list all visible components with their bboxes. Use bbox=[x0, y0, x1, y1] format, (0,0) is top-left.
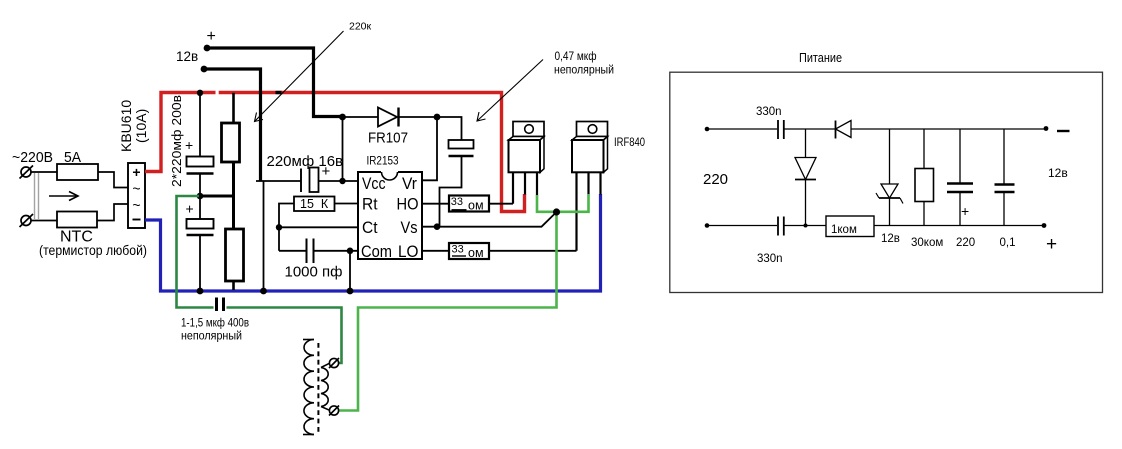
node supply top right bbox=[1044, 126, 1049, 131]
transformer T1 secondary winding bbox=[304, 340, 314, 435]
wire zener branch top bbox=[889, 129, 891, 184]
svg-text:33: 33 bbox=[452, 244, 464, 256]
node 12v minus bbox=[201, 66, 208, 73]
svg-text:Vr: Vr bbox=[402, 175, 417, 193]
svg-text:KBU610: KBU610 bbox=[118, 100, 134, 152]
svg-text:+: + bbox=[186, 201, 194, 217]
svg-text:12в: 12в bbox=[881, 233, 900, 245]
wire 12v minus to bus bbox=[263, 181, 265, 291]
wire Com to bus bbox=[349, 251, 351, 291]
node capacitor midpoint bbox=[197, 193, 204, 200]
wire R1 to midpoint bbox=[232, 162, 235, 196]
svg-text:неполярный: неполярный bbox=[554, 65, 614, 77]
capacitor C10 330n bbox=[778, 217, 784, 236]
wire secondary top stub bbox=[303, 339, 314, 341]
terminal input L bbox=[20, 166, 34, 179]
wire bottom rail right bbox=[874, 225, 1044, 227]
svg-text:ом: ом bbox=[468, 246, 484, 260]
terminal primary top bbox=[329, 358, 339, 368]
svg-text:220: 220 bbox=[703, 171, 728, 188]
pin Q2 source bbox=[599, 172, 601, 194]
wire to C1 bbox=[199, 93, 201, 157]
wire Q2 drain green bbox=[557, 194, 589, 212]
svg-text:330n: 330n bbox=[757, 253, 783, 265]
svg-text:IR2153: IR2153 bbox=[367, 156, 399, 168]
capacitor C2 220мф 200в bbox=[186, 201, 214, 236]
wire anode to FR107 bbox=[343, 116, 379, 118]
svg-text:~: ~ bbox=[132, 197, 140, 213]
svg-text:1ком: 1ком bbox=[831, 224, 857, 236]
wire top rail mid bbox=[784, 128, 836, 130]
wire top rail left bbox=[707, 128, 777, 130]
wire red rail to R1 bbox=[232, 93, 235, 123]
svg-text:(термистор любой): (термистор любой) bbox=[39, 242, 147, 258]
op-amp U1 IR2153 bbox=[358, 170, 422, 260]
label minus bbox=[1057, 130, 1070, 132]
thermistor NTC bbox=[57, 212, 97, 228]
node bootstrap bbox=[434, 114, 441, 121]
node half-bridge midpoint bbox=[553, 208, 560, 215]
svg-text:+: + bbox=[185, 137, 193, 153]
pin Q2 gate bbox=[575, 172, 577, 251]
svg-text:+: + bbox=[207, 28, 216, 45]
svg-text:30ком: 30ком bbox=[911, 237, 943, 249]
svg-text:+: + bbox=[132, 164, 140, 180]
transformer T1 primary winding bbox=[321, 368, 328, 407]
wire 12v minus down bbox=[204, 69, 261, 181]
wire NTC to KBU ~ pin bbox=[97, 204, 128, 221]
resistor R5 33ом bbox=[449, 243, 489, 260]
wire half-bridge node to transformer green bbox=[339, 212, 557, 411]
mains cord (grey pair) bbox=[35, 173, 39, 220]
pin − bbox=[133, 219, 141, 221]
diode D2 bbox=[836, 121, 852, 139]
capacitor C3 220мф 16в bbox=[301, 163, 331, 192]
wire Ct pin bbox=[279, 226, 358, 228]
transformer core bbox=[317, 343, 319, 433]
node FR107 anode bbox=[339, 114, 346, 121]
resistor R7 1ком bbox=[826, 216, 874, 237]
capacitor C7 330n bbox=[778, 120, 784, 139]
transistor Q2 IRF840 bbox=[572, 122, 608, 173]
node supply bottom left bbox=[705, 223, 710, 228]
node D1 on bottom rail bbox=[804, 224, 808, 228]
wire Q1 source green bbox=[537, 195, 557, 212]
svg-text:33: 33 bbox=[451, 196, 463, 208]
svg-text:0,47 мкф: 0,47 мкф bbox=[555, 51, 597, 63]
resistor R2 220к bbox=[226, 229, 244, 281]
wire HO pin bbox=[422, 203, 449, 205]
wire fuse to KBU ~ pin bbox=[98, 172, 128, 188]
svg-text:1-1,5 мкф 400в: 1-1,5 мкф 400в bbox=[181, 316, 249, 330]
wire midpoint to R2 bbox=[232, 196, 235, 229]
zener diode VD1 12в bbox=[876, 184, 903, 204]
svg-text:ом: ом bbox=[468, 199, 484, 213]
node C2 on bus bbox=[197, 288, 204, 295]
svg-text:~: ~ bbox=[132, 181, 140, 197]
svg-text:FR107: FR107 bbox=[368, 130, 408, 147]
wire bottom rail left bbox=[707, 225, 777, 227]
resistor R3 15К bbox=[294, 197, 335, 212]
wire terminal N to NTC bbox=[31, 220, 57, 222]
pin Q1 source bbox=[536, 172, 538, 196]
node Com on bus bbox=[347, 288, 354, 295]
wire C9 branch bottom bbox=[1003, 192, 1005, 226]
wire Vr pin to bootstrap node bbox=[422, 117, 437, 180]
resistor R4 33ом bbox=[449, 196, 489, 213]
svg-text:330n: 330n bbox=[756, 106, 782, 118]
wire C9 branch top bbox=[1003, 129, 1005, 184]
wire C3 to Vcc bbox=[319, 180, 359, 182]
pin Q2 drain bbox=[587, 172, 589, 194]
capacitor C8 220 bbox=[947, 184, 973, 193]
svg-text:2*220мф 200в: 2*220мф 200в bbox=[169, 95, 184, 187]
wire red rail white break bbox=[216, 90, 219, 95]
wire link to cap midpoint bbox=[200, 195, 234, 198]
diode FR107 bbox=[378, 108, 399, 127]
capacitor C4 0,47мкф bbox=[437, 117, 474, 227]
wire D1 branch top bbox=[805, 129, 807, 158]
svg-text:LO: LO bbox=[398, 243, 419, 261]
bridge rectifier KBU610 bbox=[128, 163, 145, 228]
svg-text:Питание: Питание bbox=[799, 51, 842, 65]
node Com bbox=[347, 248, 354, 255]
svg-text:+: + bbox=[961, 203, 969, 219]
fuse F1 5A bbox=[57, 164, 98, 180]
wire R4 to Q1 gate bbox=[490, 203, 514, 205]
wire zener branch bottom bbox=[889, 198, 891, 226]
svg-text:220к: 220к bbox=[349, 21, 372, 33]
pin Q1 gate bbox=[512, 172, 514, 203]
wire C2 to blue bus bbox=[199, 235, 201, 291]
node supply bottom right bbox=[1042, 223, 1047, 228]
wire Rt pin bbox=[335, 203, 359, 205]
terminal input N bbox=[20, 214, 34, 227]
svg-text:Vs: Vs bbox=[401, 219, 418, 237]
node Vs bootstrap return bbox=[434, 223, 441, 230]
wire C8 branch top bbox=[959, 129, 961, 183]
wire C6 to transformer dark green bbox=[227, 308, 342, 364]
wire 12v plus to FR107 anode bbox=[207, 48, 343, 117]
wire C8 branch bottom bbox=[959, 192, 961, 226]
wire R2 to blue bus bbox=[232, 281, 235, 290]
node 12v minus on bus bbox=[260, 288, 267, 295]
current direction arrow bbox=[49, 192, 78, 201]
wire R5 to Q2 gate bbox=[490, 250, 577, 252]
wire to C5 bbox=[279, 250, 307, 252]
arrow 0,47 pointer bbox=[477, 60, 543, 122]
resistor R1 220к bbox=[222, 123, 240, 162]
node Ct bbox=[276, 224, 282, 230]
wire FR107 cathode bbox=[399, 116, 438, 118]
svg-text:HO: HO bbox=[397, 196, 419, 214]
wire C5 to Com bbox=[314, 250, 359, 252]
wire LO pin bbox=[422, 250, 449, 252]
wire top rail right bbox=[851, 128, 1046, 130]
arrow 220к pointer bbox=[255, 31, 344, 122]
wire Vs pin bbox=[422, 212, 557, 227]
wire secondary bottom stub bbox=[303, 434, 314, 436]
svg-text:неполярный: неполярный bbox=[181, 329, 242, 343]
svg-text:(10A): (10A) bbox=[133, 109, 149, 143]
wire Ct node down bbox=[278, 227, 280, 251]
svg-text:Vcc: Vcc bbox=[362, 175, 386, 193]
wire black tick on red rail bbox=[276, 91, 282, 94]
svg-text:12в: 12в bbox=[1048, 166, 1068, 180]
wire terminal L to fuse bbox=[31, 171, 57, 173]
capacitor C9 0,1 bbox=[995, 185, 1015, 193]
wire 30ком branch bottom bbox=[923, 202, 925, 226]
capacitor C6 1-1,5мкф bbox=[217, 298, 224, 312]
svg-text:220: 220 bbox=[956, 237, 975, 249]
svg-text:+: + bbox=[1046, 234, 1057, 255]
svg-text:IRF840: IRF840 bbox=[614, 137, 645, 149]
wire C1 to midpoint bbox=[199, 174, 201, 197]
svg-text:1000 пф: 1000 пф bbox=[285, 264, 343, 281]
pin Q1 drain bbox=[524, 172, 526, 194]
wire cap midpoint to transformer dark green bbox=[177, 196, 214, 308]
svg-text:0,1: 0,1 bbox=[1000, 237, 1016, 249]
wire minus to C3 bbox=[256, 180, 301, 182]
capacitor C5 1000пф bbox=[307, 239, 314, 264]
wire bottom rail mid bbox=[784, 225, 826, 227]
svg-text:~220В: ~220В bbox=[12, 149, 53, 166]
node 12v plus bbox=[204, 45, 211, 52]
wire midpoint to C2 bbox=[199, 196, 201, 219]
diode D1 bbox=[795, 158, 816, 180]
wire R3 to Ct node bbox=[279, 204, 294, 228]
wire Vcc vertical bbox=[342, 117, 344, 182]
power supply panel border bbox=[670, 72, 1103, 292]
transistor Q1 IRF840 bbox=[509, 122, 545, 173]
node Vcc bbox=[339, 178, 345, 184]
wire +310V red rail bbox=[145, 93, 525, 212]
terminal primary bottom bbox=[329, 406, 339, 416]
svg-text:Rt: Rt bbox=[362, 196, 378, 214]
wire 30ком branch top bbox=[923, 129, 925, 169]
svg-text:12в: 12в bbox=[176, 49, 198, 64]
svg-text:220мф 16в: 220мф 16в bbox=[267, 153, 344, 170]
capacitor C1 220мф 200в bbox=[185, 137, 214, 174]
svg-text:Com: Com bbox=[361, 243, 392, 261]
wire D1 branch bottom bbox=[805, 180, 807, 226]
node supply top left bbox=[705, 127, 710, 132]
svg-text:15 К: 15 К bbox=[300, 197, 329, 211]
wire primary top stub bbox=[321, 363, 330, 367]
node red rail to capacitor chain bbox=[197, 90, 203, 96]
svg-text:Ct: Ct bbox=[362, 219, 378, 237]
wire primary bottom stub bbox=[321, 407, 330, 411]
resistor R6 30ком bbox=[915, 169, 934, 202]
wire negative blue bus bbox=[145, 194, 601, 291]
